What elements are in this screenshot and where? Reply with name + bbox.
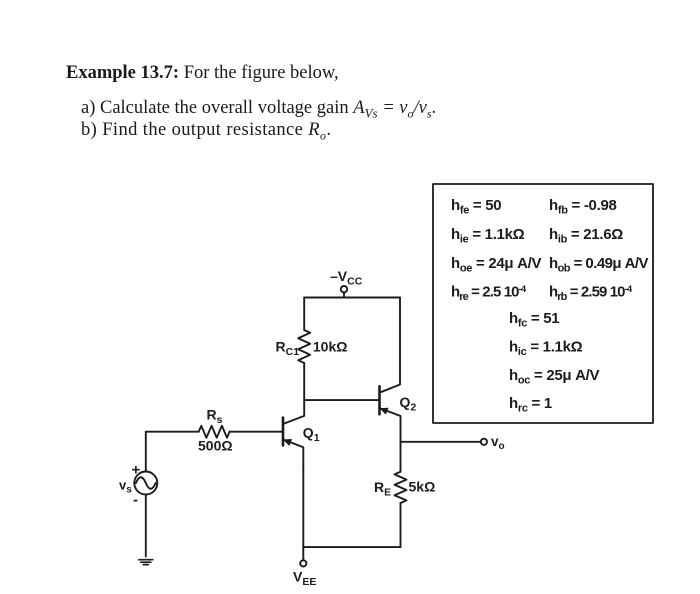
svg-text:hoc = 25μ A/V: hoc = 25μ A/V [509,367,600,387]
svg-text:500Ω: 500Ω [198,437,233,453]
wire top rail [304,297,400,299]
resistor RE [395,472,407,503]
h-parameter column 2 [549,197,649,303]
svg-text:RE: RE [374,479,391,499]
svg-text:-: - [133,492,138,509]
label Rs / 500 [198,407,233,454]
svg-text:hic = 1.1kΩ: hic = 1.1kΩ [509,339,583,359]
node Vo terminal [481,439,487,445]
title text [66,63,339,84]
wire output node to RE [400,442,402,472]
label vs [119,462,141,509]
svg-text:5kΩ: 5kΩ [409,478,436,494]
svg-text:VEE: VEE [293,569,316,589]
svg-text:hrc = 1: hrc = 1 [509,395,552,415]
svg-text:hoe = 24μ A/V: hoe = 24μ A/V [451,255,542,275]
svg-text:hrb = 2.59 10-4: hrb = 2.59 10-4 [549,284,633,304]
item a [81,98,436,122]
power -Vcc terminal [341,286,347,298]
svg-text:Q1: Q1 [303,424,320,444]
h-parameter column 1 [451,197,542,303]
transistor Q1 [283,400,304,470]
svg-text:hfb = -0.98: hfb = -0.98 [549,197,617,217]
ground [139,560,153,565]
label -Vcc [330,268,363,288]
svg-text:+: + [132,462,141,479]
wire Vs top to Rs [146,432,199,472]
svg-text:hib = 21.6Ω: hib = 21.6Ω [549,226,623,246]
svg-text:hfc = 51: hfc = 51 [509,310,559,330]
svg-text:–VCC: –VCC [330,268,363,288]
h-parameter box [433,184,653,423]
svg-text:hre = 2.5 10-4: hre = 2.5 10-4 [451,284,527,304]
svg-text:hob = 0.49μ A/V: hob = 0.49μ A/V [549,255,649,275]
resistor Rs [199,426,230,438]
label RE / 5k [374,478,435,498]
resistor RC1 [298,330,310,363]
h-parameter centered rows [509,310,600,415]
svg-text:RC1: RC1 [276,339,300,359]
label RC1 / 10k [276,339,348,359]
wire Q1 collector up / RC1 branch [303,363,305,400]
wire Rs to Q1 base [230,431,282,433]
svg-text:vs: vs [119,477,132,495]
wire node to Q2 base [304,399,378,401]
svg-text:hfe = 50: hfe = 50 [451,197,501,217]
svg-text:vo: vo [491,434,505,452]
source Vs [134,472,157,495]
wire Q1 emitter down [302,470,304,547]
wire RE to bottom rail [400,503,402,547]
svg-text:hie = 1.1kΩ: hie = 1.1kΩ [451,226,525,246]
svg-text:Rs: Rs [207,407,223,427]
power VEE terminal [300,547,306,566]
wire bottom rail [303,546,400,548]
wire output node to Vo [401,441,481,443]
wire RC1 to top rail [303,298,305,331]
item b [81,120,331,144]
svg-text:10kΩ: 10kΩ [313,339,348,355]
svg-text:Q2: Q2 [400,394,417,414]
wire Vs bottom [145,495,147,557]
transistor Q2 [380,298,401,442]
